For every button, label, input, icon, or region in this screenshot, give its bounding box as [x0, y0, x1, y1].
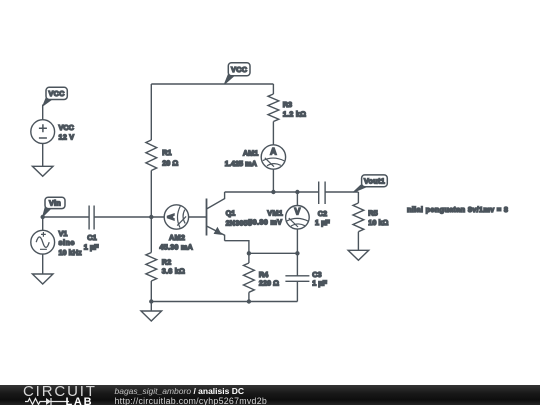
svg-text:R5: R5 — [368, 209, 377, 218]
svg-text:VCC: VCC — [48, 89, 65, 98]
svg-text:R3: R3 — [283, 100, 292, 109]
svg-text:50.80 mV: 50.80 mV — [248, 217, 282, 226]
svg-text:AM2: AM2 — [169, 233, 185, 242]
svg-text:VM1: VM1 — [267, 208, 283, 217]
svg-text:1 µF: 1 µF — [315, 218, 330, 227]
svg-text:3.6 kΩ: 3.6 kΩ — [162, 266, 185, 275]
svg-text:Vin: Vin — [49, 199, 61, 208]
svg-text:Vout1: Vout1 — [364, 176, 385, 185]
svg-text:VCC: VCC — [59, 123, 75, 132]
svg-text:nilai penguatan 8v/1mv = 8: nilai penguatan 8v/1mv = 8 — [407, 205, 508, 214]
svg-text:R2: R2 — [162, 257, 171, 266]
svg-text:AM1: AM1 — [243, 149, 258, 158]
svg-text:R1: R1 — [162, 148, 171, 157]
svg-text:1 µF: 1 µF — [84, 242, 99, 251]
svg-text:1.2 kΩ: 1.2 kΩ — [283, 109, 307, 118]
svg-text:45.30 mA: 45.30 mA — [160, 242, 194, 251]
svg-text:sine: sine — [59, 238, 75, 247]
svg-text:1 µF: 1 µF — [312, 279, 327, 288]
svg-text:12 V: 12 V — [59, 133, 75, 142]
svg-text:C2: C2 — [318, 209, 327, 218]
svg-text:20 Ω: 20 Ω — [162, 158, 178, 167]
svg-text:A: A — [166, 213, 176, 220]
svg-text:10 kΩ: 10 kΩ — [368, 218, 388, 227]
svg-text:A: A — [270, 146, 277, 156]
svg-text:220 Ω: 220 Ω — [259, 279, 279, 288]
svg-text:10 kHz: 10 kHz — [59, 248, 82, 257]
svg-text:VCC: VCC — [231, 65, 248, 74]
svg-text:R4: R4 — [259, 270, 269, 279]
svg-text:C3: C3 — [312, 270, 321, 279]
svg-text:V: V — [294, 207, 300, 217]
svg-text:C1: C1 — [87, 233, 96, 242]
svg-text:1.425 mA: 1.425 mA — [225, 159, 258, 168]
svg-text:V1: V1 — [59, 229, 68, 238]
svg-text:Q1: Q1 — [226, 208, 236, 217]
